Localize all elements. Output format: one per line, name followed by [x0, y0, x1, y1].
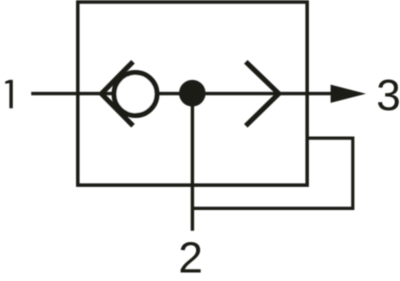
wire port 1 to check-valve seat: [31, 92, 114, 95]
throttle chevron: [246, 62, 279, 126]
valve body box: [78, 2, 307, 185]
label 1: [5, 80, 13, 108]
wire junction down to port 2: [191, 94, 194, 231]
wire check-valve circle to port 3 arrow: [157, 92, 332, 95]
svg-text:2: 2: [178, 234, 202, 281]
junction dot node: [179, 80, 206, 107]
check valve seat: [101, 62, 133, 126]
arrowhead port 3: [331, 85, 366, 103]
pilot bypass wire: [192, 138, 352, 208]
check valve ball circle: [114, 73, 157, 116]
svg-text:3: 3: [376, 71, 400, 120]
